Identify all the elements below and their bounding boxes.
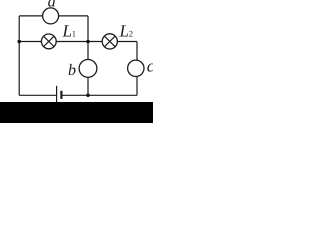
- svg-text:L: L: [62, 21, 72, 40]
- svg-text:1: 1: [72, 28, 76, 38]
- svg-text:c: c: [147, 57, 153, 76]
- svg-text:a: a: [48, 0, 56, 11]
- svg-text:2: 2: [129, 28, 133, 38]
- svg-text:b: b: [68, 62, 76, 79]
- svg-text:L: L: [119, 21, 129, 40]
